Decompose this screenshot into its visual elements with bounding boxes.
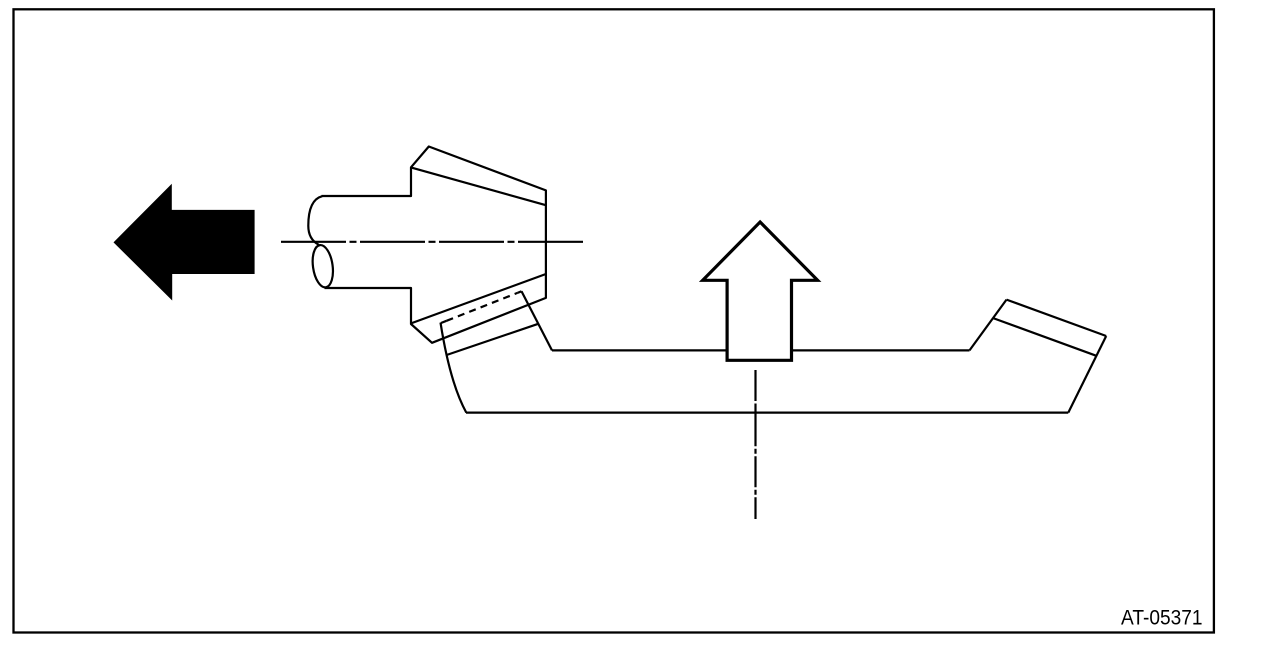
race left chamfer edge (522, 291, 553, 350)
horizontal dash-dot centerline of shaft (281, 241, 584, 243)
shaft rounded end arc (308, 196, 322, 245)
race right chamfer band inner line (993, 318, 1097, 356)
race left end edge (441, 323, 467, 413)
race right chamfer band outer edge (1007, 300, 1107, 336)
cone bottom inner chamfer line (411, 274, 546, 323)
race right end edge (1068, 336, 1106, 413)
shaft end face ellipse (310, 244, 335, 289)
vertical dash-dot centerline below arrow (754, 370, 756, 519)
hollow up arrow (press direction) (703, 222, 818, 360)
shaft and tapered cone outline (322, 147, 546, 343)
solid black arrow pointing left (press-out direction) (114, 184, 255, 301)
cone top inner chamfer line (411, 168, 546, 206)
race left chamfer band inner line (447, 324, 539, 355)
race top edge left segment (552, 349, 727, 351)
race right rise edge (970, 300, 1007, 351)
race top edge right segment (793, 349, 970, 351)
race hidden edge (dashed) under cone (441, 291, 522, 323)
race bottom edge (466, 412, 1068, 414)
svg-text:AT-05371: AT-05371 (1121, 606, 1203, 630)
